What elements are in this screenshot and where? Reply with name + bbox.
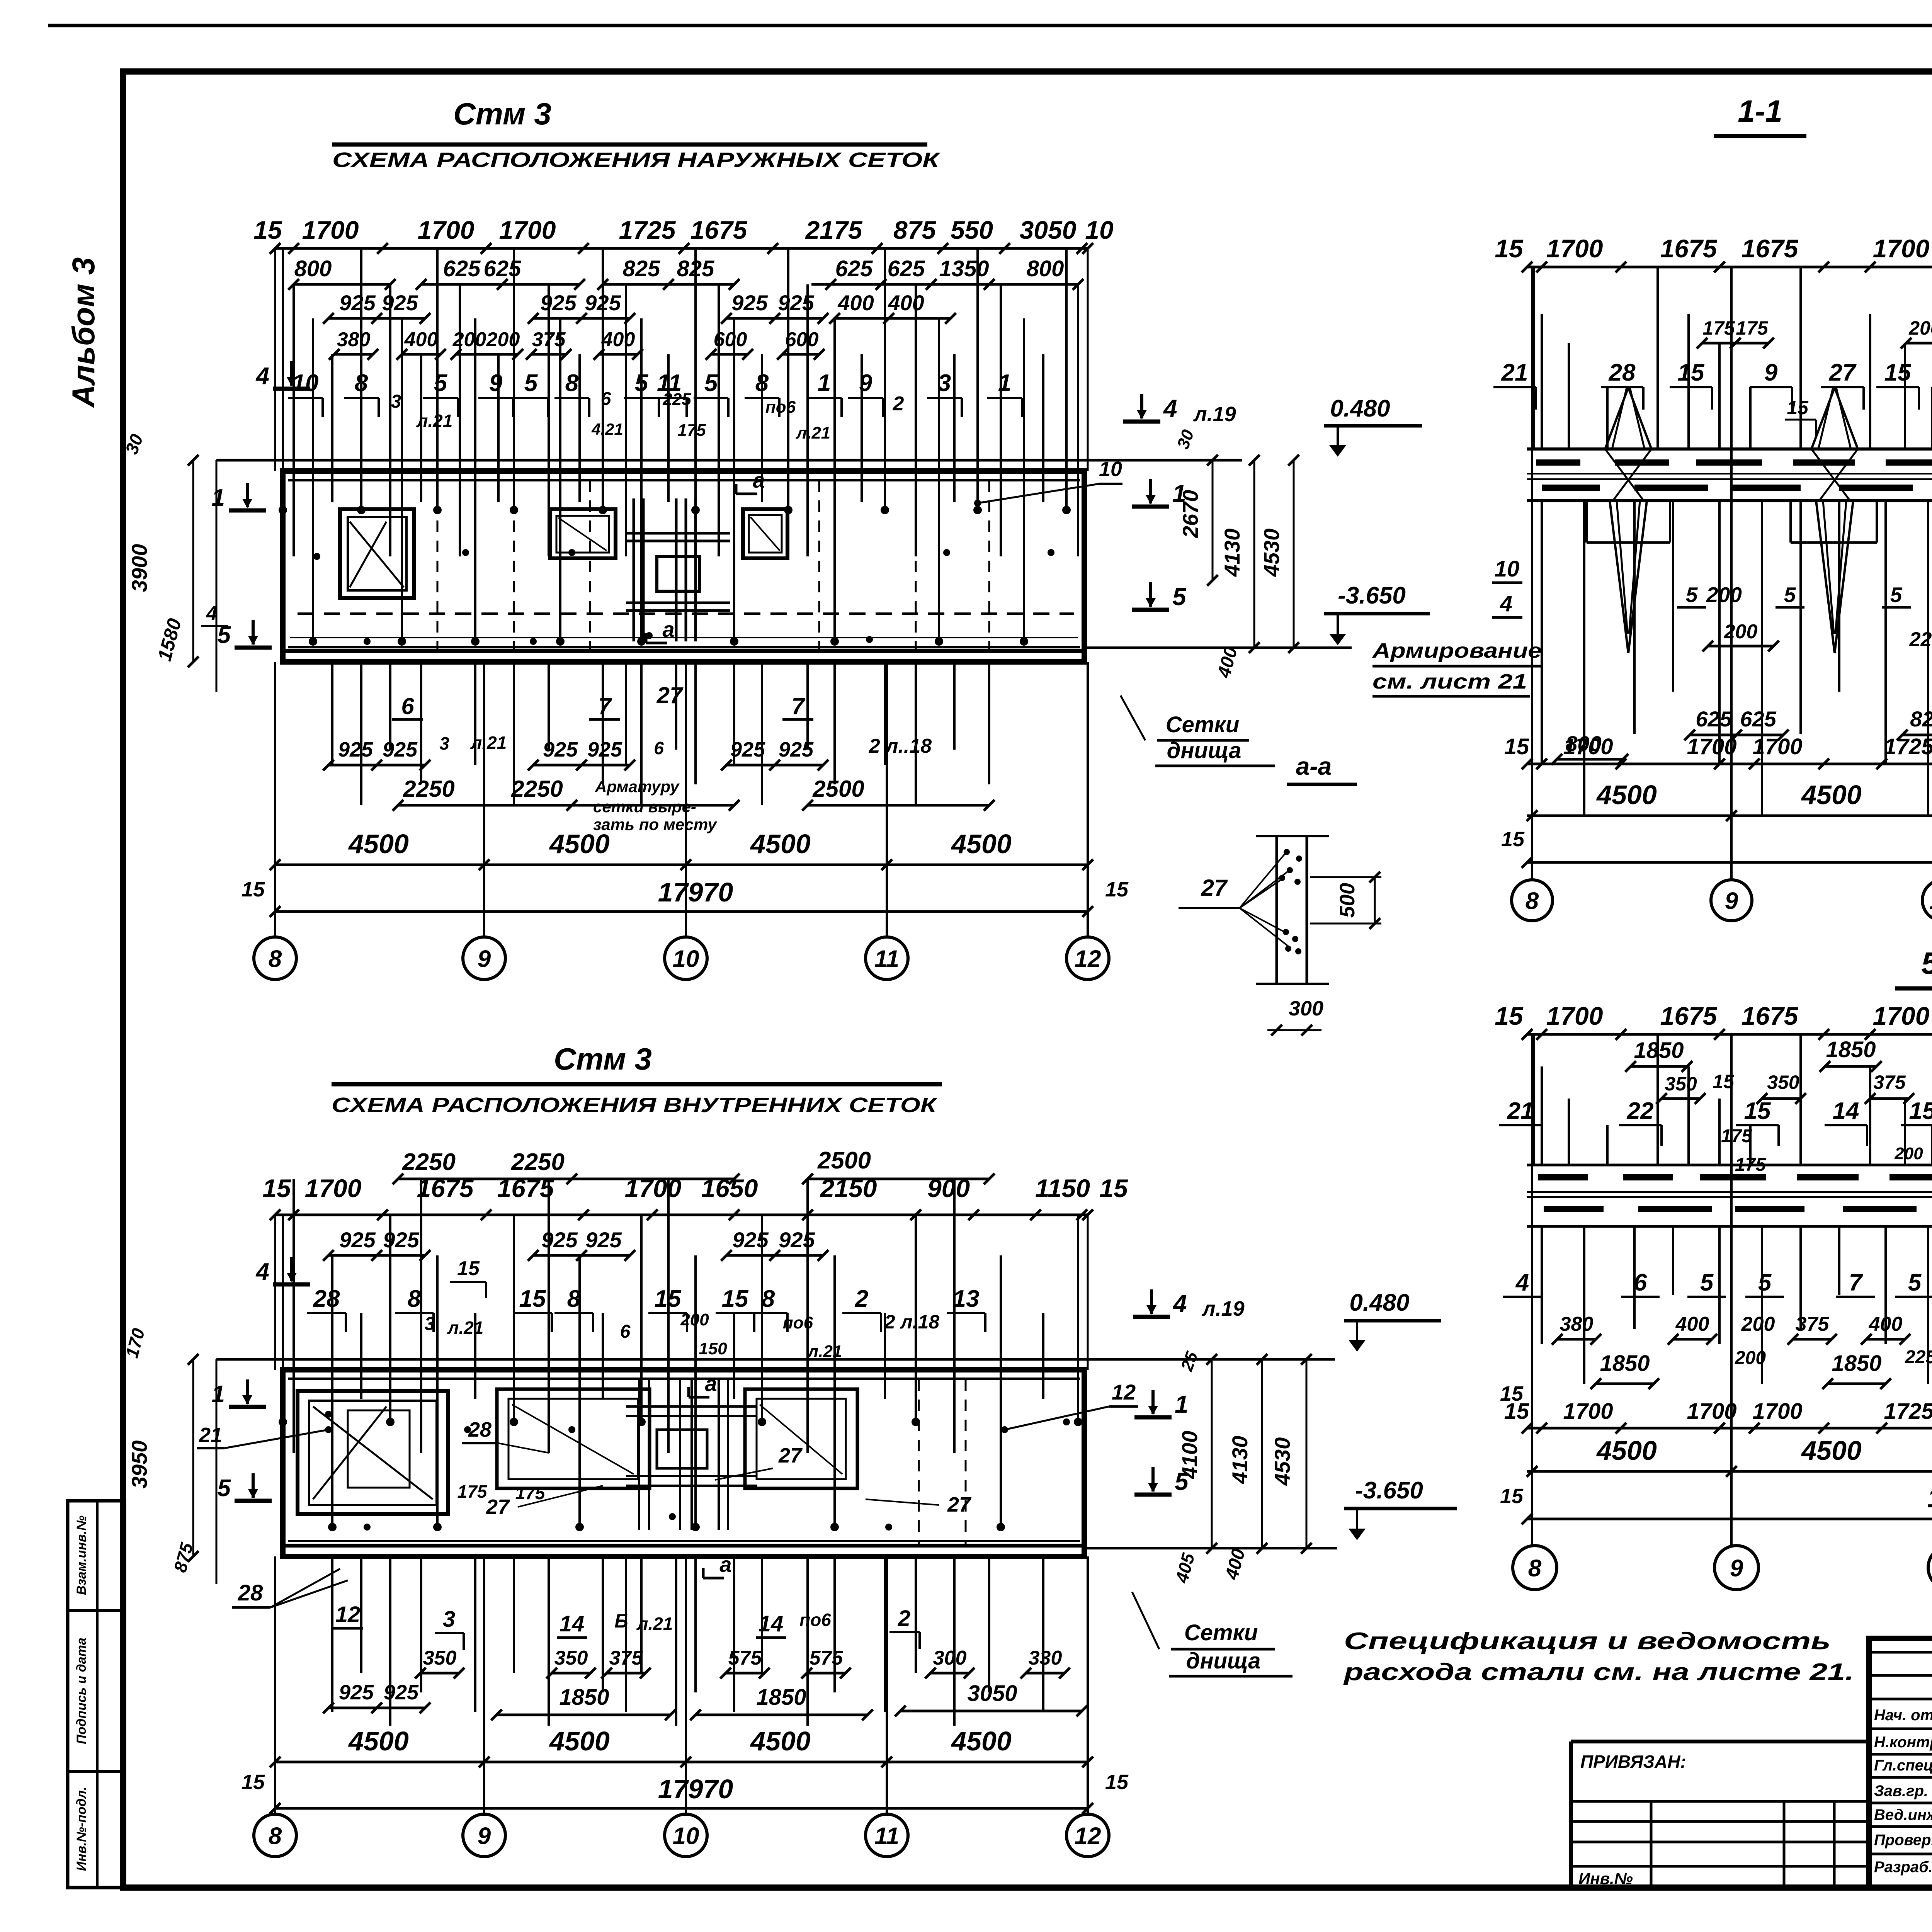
BL band dashed verticals — [918, 1379, 920, 1546]
svg-text:225: 225 — [1905, 1347, 1932, 1367]
svg-text:1700: 1700 — [1563, 734, 1613, 759]
svg-text:925: 925 — [383, 1228, 419, 1252]
TL band lower thin line — [290, 637, 1078, 638]
svg-text:925: 925 — [383, 738, 418, 761]
svg-text:15: 15 — [1909, 1098, 1932, 1124]
BL title underline — [332, 1082, 942, 1087]
svg-text:200: 200 — [452, 328, 486, 351]
svg-text:6: 6 — [620, 1321, 631, 1342]
TL dim row 925 below band — [328, 764, 425, 767]
TR column stubs below band — [1585, 501, 1588, 543]
BR grid verticals — [1531, 1034, 1533, 1546]
svg-text:4500: 4500 — [750, 1726, 811, 1756]
svg-text:6: 6 — [654, 738, 664, 758]
svg-text:28: 28 — [238, 1580, 263, 1605]
svg-text:7: 7 — [598, 693, 612, 719]
svg-text:17970: 17970 — [1927, 1483, 1932, 1513]
svg-text:925: 925 — [778, 291, 814, 315]
svg-text:10: 10 — [292, 370, 319, 396]
svg-text:1700: 1700 — [418, 216, 474, 244]
svg-text:1: 1 — [818, 370, 831, 396]
svg-text:1725: 1725 — [1884, 1399, 1932, 1424]
svg-text:9: 9 — [489, 370, 503, 396]
BR band rebar dashes row2 — [1544, 1206, 1604, 1212]
svg-text:11: 11 — [874, 946, 899, 972]
TL mark 4 l19 — [1140, 394, 1143, 418]
svg-text:5: 5 — [1172, 583, 1187, 611]
svg-text:5: 5 — [434, 370, 448, 396]
svg-text:2: 2 — [855, 1286, 868, 1312]
svg-text:350: 350 — [1767, 1071, 1799, 1093]
svg-text:5-5: 5-5 — [1921, 946, 1932, 980]
svg-text:400: 400 — [601, 328, 635, 351]
svg-text:28: 28 — [1609, 359, 1636, 386]
svg-text:200: 200 — [1724, 621, 1758, 643]
TR dim row 17970 — [1527, 861, 1932, 864]
BL dim row 925 — [328, 1254, 425, 1257]
BL left side marks — [290, 1257, 293, 1281]
svg-text:400: 400 — [888, 291, 924, 315]
BR verticals above band — [1533, 1034, 1535, 1165]
svg-text:925: 925 — [384, 1681, 419, 1704]
BL dim row 2250 — [398, 1178, 734, 1180]
svg-text:175: 175 — [457, 1481, 488, 1502]
svg-text:5: 5 — [1175, 1468, 1189, 1495]
TL dim row 4500 — [275, 864, 1088, 866]
svg-text:14: 14 — [560, 1611, 585, 1636]
svg-text:12: 12 — [335, 1602, 361, 1627]
svg-text:350: 350 — [423, 1647, 457, 1669]
svg-text:12: 12 — [1075, 946, 1101, 972]
svg-text:2250: 2250 — [511, 1149, 565, 1175]
svg-text:3: 3 — [439, 733, 449, 753]
svg-text:28: 28 — [313, 1286, 340, 1312]
svg-text:14: 14 — [1833, 1098, 1859, 1124]
svg-text:27: 27 — [1201, 875, 1228, 901]
svg-text:21: 21 — [199, 1423, 222, 1447]
svg-text:7: 7 — [1849, 1269, 1863, 1296]
svg-text:4: 4 — [255, 1259, 269, 1285]
svg-text:а: а — [705, 1371, 717, 1396]
BR dim row 17970 — [1527, 1518, 1932, 1520]
svg-text:по6: по6 — [799, 1610, 831, 1630]
svg-text:л.19: л.19 — [1193, 403, 1236, 426]
TL mark 1 — [1149, 479, 1152, 503]
TL middle rebar cluster — [633, 498, 635, 641]
svg-text:400: 400 — [837, 291, 874, 315]
svg-text:5: 5 — [1686, 583, 1698, 607]
svg-text:400: 400 — [404, 328, 438, 351]
svg-text:225: 225 — [662, 390, 691, 409]
svg-text:925: 925 — [339, 1681, 374, 1704]
svg-text:150: 150 — [699, 1339, 727, 1358]
svg-text:1700: 1700 — [1752, 734, 1802, 759]
svg-text:4500: 4500 — [1596, 780, 1657, 810]
svg-text:4: 4 — [1172, 1290, 1187, 1318]
BL top dimension row — [275, 1214, 1088, 1216]
TL grid bubbles — [254, 937, 296, 980]
BL window opening 2 — [497, 1389, 650, 1488]
svg-text:17970: 17970 — [658, 1774, 733, 1804]
svg-text:2250: 2250 — [402, 1149, 456, 1175]
svg-text:300: 300 — [1289, 997, 1323, 1020]
svg-text:625: 625 — [835, 256, 873, 281]
svg-text:9: 9 — [1764, 359, 1778, 386]
BR band mid lines — [1527, 1191, 1932, 1193]
svg-text:200: 200 — [1735, 1348, 1766, 1368]
TR verticals above band — [1533, 267, 1535, 449]
svg-text:2175: 2175 — [805, 216, 863, 244]
svg-text:925: 925 — [540, 291, 577, 315]
svg-text:1700: 1700 — [302, 216, 359, 244]
svg-text:27: 27 — [656, 682, 684, 708]
svg-text:10: 10 — [1930, 888, 1932, 914]
svg-text:550: 550 — [951, 216, 993, 244]
TR funnel hoppers — [1605, 388, 1628, 449]
BL band inner bottom lines — [288, 1540, 1080, 1542]
svg-text:15: 15 — [253, 216, 282, 244]
svg-text:15: 15 — [457, 1257, 480, 1280]
svg-text:4: 4 — [255, 363, 269, 389]
svg-text:825: 825 — [1910, 707, 1932, 731]
svg-text:Нач. отд: Нач. отд — [1874, 1707, 1932, 1724]
svg-text:15: 15 — [1495, 234, 1524, 263]
svg-text:сетки выре-: сетки выре- — [593, 798, 696, 816]
TL band inner bottom lines — [288, 646, 1080, 648]
svg-text:1675: 1675 — [1742, 234, 1799, 263]
BL grid verticals — [274, 1556, 276, 1814]
svg-text:11: 11 — [874, 1823, 899, 1849]
svg-text:28: 28 — [468, 1418, 492, 1441]
svg-text:625: 625 — [1740, 707, 1776, 731]
svg-text:2250: 2250 — [403, 776, 454, 802]
svg-text:800: 800 — [294, 256, 332, 281]
svg-text:а: а — [753, 468, 765, 492]
TL dimension row C — [328, 317, 425, 320]
svg-text:15: 15 — [722, 1286, 749, 1312]
BL middle rebar cluster — [638, 1379, 640, 1530]
TR top dimension row line — [1527, 266, 1932, 269]
BL band inner top line — [288, 1378, 1080, 1380]
svg-text:Стм 3: Стм 3 — [554, 1042, 652, 1076]
svg-text:а-а: а-а — [1296, 752, 1332, 780]
svg-text:8: 8 — [269, 946, 282, 972]
svg-text:925: 925 — [541, 1228, 578, 1252]
svg-text:925: 925 — [779, 738, 814, 761]
BL dim row 17970 — [275, 1807, 1088, 1810]
TL window opening 1 — [340, 509, 414, 598]
sheet outer thin border top — [48, 24, 1932, 27]
svg-text:8: 8 — [1526, 888, 1539, 914]
svg-text:27: 27 — [1829, 359, 1857, 386]
svg-text:15: 15 — [1099, 1174, 1128, 1202]
svg-text:днища: днища — [1186, 1648, 1261, 1673]
svg-text:1700: 1700 — [1752, 1399, 1802, 1424]
TR band rebar dashes row2 — [1542, 485, 1600, 491]
svg-text:Сетки: Сетки — [1166, 712, 1240, 737]
svg-text:15: 15 — [1105, 878, 1129, 901]
svg-text:15: 15 — [1504, 734, 1529, 759]
svg-text:5: 5 — [218, 1475, 231, 1502]
svg-text:625: 625 — [888, 256, 925, 281]
svg-text:Сетки: Сетки — [1184, 1620, 1258, 1645]
svg-text:15: 15 — [519, 1286, 546, 1312]
svg-text:27: 27 — [947, 1493, 972, 1516]
svg-text:15: 15 — [1678, 359, 1705, 386]
privyazan block outline — [1569, 1742, 1573, 1888]
svg-text:Вед.инж.: Вед.инж. — [1874, 1806, 1932, 1823]
TR grid verticals — [1531, 267, 1533, 880]
BR top dimension row line — [1527, 1033, 1932, 1036]
svg-text:925: 925 — [382, 291, 418, 315]
svg-text:-3.650: -3.650 — [1355, 1477, 1423, 1504]
svg-text:5: 5 — [1700, 1269, 1714, 1296]
TL dimension row D — [334, 353, 373, 356]
BL mark 4 l19 — [1150, 1289, 1153, 1314]
svg-text:800: 800 — [1027, 256, 1064, 281]
svg-text:10: 10 — [1085, 216, 1114, 244]
svg-text:6: 6 — [1634, 1269, 1647, 1296]
svg-text:1675: 1675 — [1742, 1002, 1799, 1030]
svg-text:3900: 3900 — [127, 544, 151, 592]
svg-text:21: 21 — [1501, 359, 1528, 386]
svg-text:1: 1 — [1175, 1390, 1189, 1418]
svg-text:1675: 1675 — [1660, 234, 1718, 263]
detail a-a rebar dots lower — [1283, 929, 1289, 935]
BL wall band outer — [283, 1370, 1084, 1556]
svg-text:300: 300 — [933, 1647, 967, 1669]
svg-text:380: 380 — [337, 328, 371, 351]
svg-text:4500: 4500 — [951, 829, 1012, 859]
svg-text:Спецификация и ведомость: Спецификация и ведомость — [1344, 1628, 1831, 1655]
BL grid bubbles — [254, 1814, 296, 1857]
BR band rebar dashes row1 — [1538, 1174, 1588, 1180]
TL elevation level line 0.480 — [216, 459, 1242, 462]
svg-text:15: 15 — [1744, 1098, 1771, 1124]
svg-text:175: 175 — [1736, 317, 1769, 339]
svg-text:1850: 1850 — [756, 1685, 806, 1710]
BR grid bubbles — [1513, 1546, 1557, 1590]
svg-text:10: 10 — [1099, 457, 1122, 481]
svg-text:1700: 1700 — [1546, 1002, 1603, 1030]
svg-text:Н.контр.: Н.контр. — [1874, 1734, 1932, 1751]
svg-text:1650: 1650 — [701, 1174, 758, 1202]
svg-text:4: 4 — [1500, 591, 1512, 616]
svg-text:л.21: л.21 — [470, 733, 507, 753]
svg-text:л.21: л.21 — [796, 423, 831, 442]
svg-text:4130: 4130 — [1228, 1436, 1252, 1485]
svg-text:900: 900 — [927, 1174, 970, 1202]
svg-text:Разраб.: Разраб. — [1874, 1859, 1932, 1876]
svg-text:15: 15 — [1500, 1485, 1524, 1508]
svg-text:зать по месту: зать по месту — [593, 815, 718, 833]
svg-text:по6: по6 — [765, 398, 796, 417]
svg-text:4500: 4500 — [951, 1726, 1012, 1756]
svg-text:Армирование: Армирование — [1372, 639, 1542, 662]
TL wall band outer — [283, 471, 1084, 662]
svg-text:8: 8 — [565, 370, 579, 396]
TR small dims — [1702, 342, 1769, 345]
svg-text:1850: 1850 — [1600, 1351, 1650, 1376]
svg-text:2150: 2150 — [820, 1174, 877, 1202]
svg-text:15: 15 — [241, 1770, 265, 1794]
svg-text:10: 10 — [673, 1823, 699, 1849]
svg-text:375: 375 — [1873, 1071, 1906, 1093]
svg-text:2500: 2500 — [817, 1147, 871, 1174]
svg-text:925: 925 — [731, 291, 768, 315]
svg-text:4500: 4500 — [549, 1726, 610, 1756]
svg-text:2 л..18: 2 л..18 — [869, 735, 932, 757]
svg-text:12: 12 — [1075, 1823, 1101, 1849]
svg-text:875: 875 — [893, 216, 936, 244]
svg-text:15: 15 — [1105, 1770, 1129, 1794]
svg-text:днища: днища — [1167, 738, 1242, 763]
svg-text:8: 8 — [1528, 1555, 1542, 1582]
TR band mid thin lines — [1527, 473, 1932, 474]
svg-text:600: 600 — [785, 328, 819, 351]
TR verticals below band — [1541, 501, 1543, 764]
svg-text:1700: 1700 — [1873, 1002, 1930, 1030]
svg-text:10: 10 — [1495, 556, 1520, 582]
svg-text:375: 375 — [1796, 1313, 1830, 1335]
svg-text:а: а — [719, 1552, 731, 1577]
svg-text:225: 225 — [1909, 628, 1932, 651]
svg-text:925: 925 — [338, 738, 373, 761]
BL verticals below band — [331, 1556, 333, 1712]
svg-text:3: 3 — [425, 1314, 435, 1334]
svg-text:400: 400 — [1675, 1313, 1709, 1335]
svg-text:1700: 1700 — [499, 216, 556, 244]
svg-text:575: 575 — [810, 1647, 844, 1669]
svg-text:2: 2 — [893, 393, 904, 415]
svg-text:Инв.№-подл.: Инв.№-подл. — [74, 1787, 89, 1871]
svg-text:925: 925 — [587, 738, 622, 761]
svg-text:21: 21 — [1507, 1098, 1534, 1124]
svg-text:л.21: л.21 — [636, 1614, 673, 1634]
svg-text:12: 12 — [1112, 1380, 1136, 1404]
TL vertical leader lines above band — [282, 248, 284, 510]
BR dim row 1850 — [1631, 1065, 1687, 1068]
svg-text:825: 825 — [623, 256, 661, 281]
svg-text:4500: 4500 — [348, 1726, 409, 1756]
svg-text:350: 350 — [554, 1647, 588, 1669]
svg-text:1700: 1700 — [1687, 734, 1736, 759]
svg-text:0.480: 0.480 — [1330, 395, 1390, 422]
svg-text:625: 625 — [1696, 707, 1732, 731]
svg-text:2250: 2250 — [511, 776, 563, 802]
svg-text:350: 350 — [1665, 1073, 1697, 1095]
svg-text:1675: 1675 — [1660, 1002, 1718, 1030]
TL dim row 2250 2500 — [398, 804, 734, 807]
svg-text:17970: 17970 — [658, 877, 733, 907]
TL band dots — [313, 553, 320, 560]
svg-text:1700: 1700 — [625, 1174, 682, 1202]
svg-text:925: 925 — [339, 291, 376, 315]
svg-text:1700: 1700 — [1687, 1399, 1736, 1424]
svg-text:15: 15 — [1495, 1002, 1524, 1030]
svg-text:15: 15 — [1884, 359, 1912, 386]
svg-text:10: 10 — [673, 946, 699, 972]
svg-text:400: 400 — [1869, 1313, 1903, 1335]
svg-text:5: 5 — [704, 370, 718, 396]
svg-text:9: 9 — [478, 1823, 491, 1849]
TR grid bubbles — [1512, 880, 1553, 921]
svg-text:4500: 4500 — [549, 829, 610, 859]
svg-text:13: 13 — [953, 1286, 980, 1312]
TL dim row 17970 — [275, 910, 1088, 913]
svg-text:175: 175 — [677, 421, 706, 440]
detail a-a column lines — [1276, 836, 1278, 984]
TR bottom dim row — [1527, 763, 1932, 765]
BR band top line — [1527, 1164, 1932, 1167]
svg-text:200: 200 — [1706, 583, 1742, 607]
svg-text:2500: 2500 — [812, 776, 864, 802]
left margin box column — [68, 1501, 124, 1888]
BR verticals below band — [1541, 1226, 1543, 1344]
svg-text:Гл.спец.: Гл.спец. — [1874, 1757, 1932, 1774]
BL mark 1 mid — [1151, 1390, 1155, 1414]
svg-text:1: 1 — [212, 485, 225, 511]
title block outer — [1869, 1638, 1932, 1888]
svg-text:15: 15 — [241, 878, 265, 901]
svg-text:1675: 1675 — [497, 1174, 554, 1202]
svg-text:925: 925 — [732, 1228, 769, 1252]
BL elevation level line — [216, 1358, 1335, 1361]
svg-text:Арматуру: Арматуру — [595, 777, 680, 796]
svg-text:5: 5 — [1784, 583, 1796, 607]
svg-text:1: 1 — [212, 1381, 225, 1408]
svg-text:15: 15 — [1787, 397, 1809, 418]
TL verticals below band — [331, 662, 333, 765]
BL band dots — [325, 1411, 332, 1418]
svg-text:4500: 4500 — [1801, 1435, 1862, 1466]
svg-text:ПРИВЯЗАН:: ПРИВЯЗАН: — [1580, 1752, 1686, 1772]
svg-text:6: 6 — [401, 693, 414, 719]
svg-text:175: 175 — [1721, 1126, 1752, 1146]
svg-text:5: 5 — [218, 622, 231, 648]
svg-text:СХЕМА РАСПОЛОЖЕНИЯ ВНУТРЕННИ: СХЕМА РАСПОЛОЖЕНИЯ ВНУТРЕННИХ СЕТОК — [332, 1094, 938, 1117]
svg-text:Б: Б — [614, 1610, 628, 1632]
TL top dimension row A line — [275, 247, 1088, 250]
BL window opening 1 — [298, 1391, 448, 1514]
svg-text:4.21: 4.21 — [591, 420, 623, 438]
svg-text:1850: 1850 — [1826, 1037, 1876, 1062]
TL left side marks — [290, 361, 293, 386]
svg-text:расхода стали см. на листе 21.: расхода стали см. на листе 21. — [1343, 1659, 1854, 1685]
svg-text:-3.650: -3.650 — [1338, 582, 1406, 609]
svg-text:7: 7 — [791, 693, 805, 719]
svg-text:3: 3 — [391, 391, 401, 412]
svg-text:2670: 2670 — [1178, 490, 1202, 539]
TL window opening 2 — [550, 509, 616, 558]
svg-text:200: 200 — [1741, 1313, 1775, 1335]
svg-text:9: 9 — [478, 946, 491, 972]
TR band bottom line — [1527, 499, 1932, 502]
BL verticals above band — [282, 1215, 284, 1422]
svg-text:9: 9 — [1725, 888, 1738, 914]
svg-text:14: 14 — [759, 1611, 784, 1636]
svg-text:а: а — [662, 617, 674, 641]
svg-text:4530: 4530 — [1270, 1437, 1294, 1486]
svg-text:1700: 1700 — [1873, 234, 1930, 263]
svg-text:9: 9 — [1730, 1555, 1743, 1582]
svg-text:625: 625 — [443, 256, 481, 281]
svg-text:1150: 1150 — [1035, 1174, 1090, 1202]
svg-text:15: 15 — [262, 1174, 291, 1202]
TR band rebar dashes row1 — [1536, 459, 1580, 466]
BL dim row 4500 — [275, 1761, 1088, 1764]
svg-text:925: 925 — [730, 738, 765, 761]
